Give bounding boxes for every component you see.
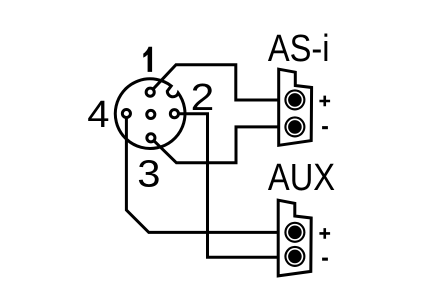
- connector body circle with keying notch: [115, 79, 185, 149]
- svg-text:2: 2: [191, 75, 215, 118]
- AUX + terminal: [284, 222, 305, 243]
- svg-text:4: 4: [87, 94, 109, 136]
- wire pin1 to AS-i +: [150, 65, 280, 100]
- svg-text:AS-i: AS-i: [268, 27, 330, 70]
- AS-i terminal block body: [279, 69, 312, 145]
- wire pin2 to AUX -: [174, 114, 280, 258]
- AS-i - terminal: [284, 116, 305, 137]
- wire pin4 to AUX +: [126, 114, 280, 233]
- AUX minus sign: [322, 258, 328, 261]
- svg-text:AUX: AUX: [268, 156, 335, 199]
- pin 4: [122, 109, 130, 117]
- AS-i plus sign: [319, 96, 330, 107]
- pin 2: [170, 110, 178, 118]
- AS-i minus sign: [322, 126, 328, 129]
- pin 5 center: [147, 110, 155, 118]
- label 1: [143, 47, 152, 72]
- AS-i + terminal: [284, 89, 305, 110]
- AUX plus sign: [319, 228, 330, 239]
- wire pin3 to AS-i -: [151, 127, 280, 163]
- AUX - terminal: [284, 246, 305, 267]
- AUX terminal block body: [278, 200, 311, 276]
- pin 1: [146, 88, 154, 96]
- svg-text:3: 3: [137, 153, 160, 195]
- pin 3: [147, 134, 155, 142]
